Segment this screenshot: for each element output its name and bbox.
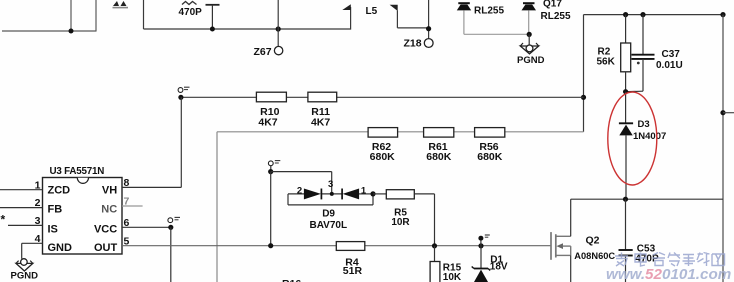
wire top bus y=29	[144, 28, 351, 30]
junction dot OUT D1	[478, 243, 483, 248]
wire pin6 VCC	[122, 226, 171, 228]
wire corner down x=434	[434, 194, 436, 246]
wire D9 frame	[288, 194, 373, 205]
svg-text:L5: L5	[366, 6, 378, 17]
svg-text:4: 4	[35, 233, 41, 245]
diode D1 zener	[472, 246, 491, 282]
svg-text:52: 52	[645, 266, 662, 282]
watermark url www.520101.com	[606, 266, 731, 282]
red highlight ellipse	[608, 92, 657, 185]
svg-text:680K: 680K	[477, 151, 503, 163]
diode RL255 right	[522, 3, 537, 10]
svg-text:56K: 56K	[597, 57, 616, 68]
wire diode1 down	[463, 10, 465, 34]
wire pin2 FB	[0, 207, 43, 209]
svg-text:Q2: Q2	[586, 234, 600, 246]
svg-text:51R: 51R	[343, 265, 363, 277]
svg-text:4K7: 4K7	[258, 117, 277, 129]
wire vertical x=143	[143, 0, 145, 29]
junction dot D9 top	[268, 169, 273, 174]
junction dot Z67	[276, 26, 281, 31]
junction dot cap to bus	[210, 27, 215, 32]
junction dot PGND	[527, 32, 532, 37]
junction dot left end y=97	[178, 95, 183, 100]
wire marker stub	[270, 166, 272, 172]
wire VCC down	[170, 227, 172, 282]
svg-text:18V: 18V	[490, 261, 508, 272]
junction dot x=583 y=97	[581, 95, 586, 100]
U3 notch	[77, 178, 88, 184]
svg-text:680K: 680K	[426, 151, 452, 163]
wire vertical x=428 from top	[428, 0, 430, 39]
wire pin3 IS	[8, 224, 43, 226]
junction dot C37 top	[640, 12, 645, 17]
svg-text:Q17: Q17	[543, 0, 562, 10]
svg-text:470P: 470P	[179, 7, 203, 18]
svg-text:R16: R16	[282, 278, 301, 282]
test point marker VCC	[168, 217, 180, 222]
test point Z67 circle	[274, 46, 282, 54]
svg-text:2: 2	[297, 185, 302, 196]
diode D3 1N4007	[619, 92, 633, 200]
svg-text:3: 3	[328, 179, 333, 190]
svg-text:www.: www.	[606, 266, 645, 282]
offpage arrow left	[342, 4, 351, 10]
wire VH riser x=181	[180, 97, 182, 187]
capacitor lead wire	[211, 5, 213, 29]
junction dot Z18	[426, 26, 431, 31]
wire grey vertical x=217	[216, 132, 218, 282]
svg-text:VCC: VCC	[94, 223, 117, 235]
svg-text:GND: GND	[48, 242, 73, 254]
junction dot D3 top	[623, 89, 628, 94]
svg-text:Z18: Z18	[404, 37, 422, 49]
clipped squiggle above 470P	[182, 2, 197, 5]
svg-text:VH: VH	[102, 184, 117, 196]
svg-text:0101.com: 0101.com	[662, 266, 731, 282]
svg-text:4K7: 4K7	[311, 117, 330, 129]
svg-text:PGND: PGND	[517, 55, 545, 66]
wire top-left horizontal	[2, 30, 97, 32]
svg-text:BAV70L: BAV70L	[309, 220, 347, 231]
svg-text:3: 3	[35, 215, 41, 227]
wire OUT bus y=245.7	[122, 245, 551, 247]
test point marker D9	[268, 161, 280, 166]
capacitor C53	[619, 199, 633, 282]
resistor R10	[256, 92, 286, 102]
svg-text:*: *	[1, 213, 6, 227]
svg-text:1: 1	[35, 179, 41, 191]
watermark chinese characters	[615, 253, 725, 267]
svg-text:10R: 10R	[391, 217, 410, 228]
svg-text:7: 7	[124, 196, 130, 208]
wire vertical stub x=71	[70, 0, 72, 31]
wire grey loop y=131.8	[217, 131, 584, 133]
resistor R56	[475, 128, 505, 138]
ground PGND bottom symbol	[16, 259, 33, 271]
resistor R4	[336, 242, 365, 251]
junction dot R2 top	[623, 12, 628, 17]
wire mid bus y=97	[181, 96, 584, 98]
svg-text:8: 8	[124, 177, 130, 189]
test point marker D1	[478, 235, 489, 246]
wire Q2 drain up	[570, 199, 572, 236]
ground PGND top symbol	[520, 34, 538, 54]
junction dot OUT left	[268, 243, 273, 248]
wire vertical x=397	[396, 11, 398, 28]
wire vertical x=583	[583, 15, 585, 132]
junction dot top-left	[69, 29, 74, 34]
clipped reference label top-left	[113, 1, 129, 8]
wire stub offpage right	[723, 112, 734, 114]
wire horizontal to Z18	[397, 27, 428, 29]
svg-text:6: 6	[124, 217, 130, 229]
junction dot OUT R15	[432, 243, 437, 248]
svg-text:1N4007: 1N4007	[633, 131, 666, 142]
svg-text:Z67: Z67	[254, 46, 272, 58]
wire right edge vertical	[722, 15, 724, 282]
test point Z18 circle	[424, 39, 433, 48]
resistor R2	[621, 15, 631, 92]
svg-text:680K: 680K	[370, 151, 396, 163]
wire pin8 VH	[122, 186, 181, 188]
svg-text:OUT: OUT	[94, 242, 118, 254]
wire horizontal y=34	[464, 33, 529, 35]
junction dot C53	[623, 197, 628, 202]
diode D9 right element	[342, 189, 359, 200]
svg-text:D3: D3	[638, 119, 650, 130]
junction dot top-right corner	[720, 12, 725, 17]
op-amp U3 body	[43, 178, 123, 255]
svg-text:D9: D9	[322, 209, 335, 220]
svg-text:PGND: PGND	[11, 270, 39, 281]
wire to pin3 of D9	[271, 171, 332, 173]
diode D9 left element	[304, 189, 322, 200]
test point marker above y=97	[178, 87, 189, 92]
wire corner x=350 with arrow	[350, 7, 352, 30]
wire drain bus y=199.2	[571, 198, 723, 200]
svg-text:RL255: RL255	[474, 6, 504, 17]
wire R5 to corner	[414, 193, 434, 195]
wire diode2 down	[528, 10, 530, 34]
wire left drop to OUT	[270, 172, 272, 246]
svg-text:NC: NC	[101, 204, 117, 216]
svg-text:U3 FA5571N: U3 FA5571N	[50, 166, 105, 177]
resistor R61	[424, 128, 454, 138]
wire pin4 GND	[22, 242, 43, 244]
wire to R5	[373, 193, 386, 195]
wire vertical stub x=96	[95, 0, 97, 31]
capacitor plate bar	[206, 4, 220, 6]
resistor R15	[430, 246, 440, 282]
svg-text:0.01U: 0.01U	[656, 60, 683, 71]
svg-text:IS: IS	[48, 223, 58, 235]
resistor R11	[308, 92, 337, 102]
svg-text:10K: 10K	[443, 272, 462, 282]
transistor Q2 mosfet	[551, 232, 571, 260]
svg-text:FB: FB	[48, 204, 63, 216]
wire top-right bus y=14.6	[584, 14, 724, 16]
svg-text:C37: C37	[662, 49, 681, 60]
junction dot D9 right	[370, 191, 375, 196]
capacitor C37	[626, 15, 655, 92]
svg-text:ZCD: ZCD	[48, 184, 71, 196]
resistor R5	[386, 190, 414, 199]
diode RL255 left	[457, 3, 471, 10]
junction dot right edge	[720, 110, 725, 115]
wire Q2 source down	[570, 255, 572, 282]
offpage arrow right	[390, 5, 398, 11]
wire GND down	[21, 243, 23, 258]
svg-text:2: 2	[35, 197, 41, 209]
wire pin3 drop	[331, 172, 333, 194]
wire Z67 stub down	[277, 29, 279, 46]
wire vertical x=278 up	[277, 0, 279, 29]
wire pin1 ZCD	[0, 189, 43, 191]
junction dot D9 common	[330, 192, 334, 196]
wire pin7 NC grey	[122, 205, 143, 207]
svg-text:RL255: RL255	[541, 11, 571, 22]
junction dot VCC	[168, 225, 173, 230]
svg-text:A08N60C: A08N60C	[574, 251, 615, 261]
svg-text:1: 1	[361, 185, 367, 196]
resistor R62	[368, 128, 398, 138]
